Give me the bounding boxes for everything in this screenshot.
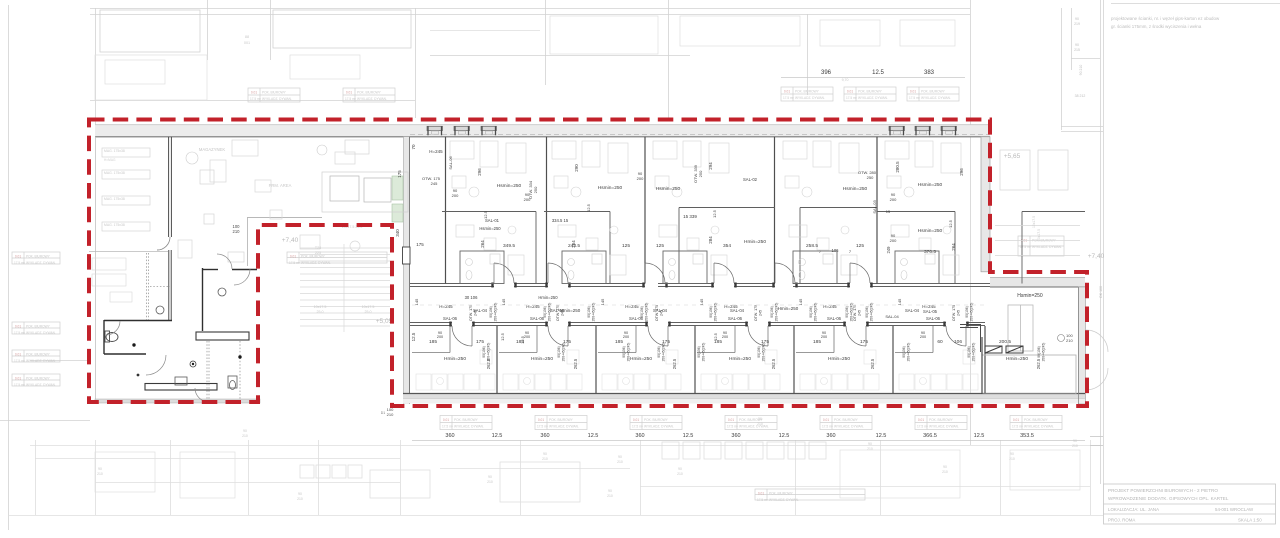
svg-text:WYKLADZ. DYWAN.: WYKLADZ. DYWAN. — [26, 383, 56, 387]
svg-text:OTW. 175: OTW. 175 — [754, 305, 758, 321]
svg-text:262.5: 262.5 — [870, 358, 875, 369]
svg-text:200: 200 — [890, 197, 897, 202]
svg-text:0.01: 0.01 — [910, 90, 916, 94]
svg-text:90(106): 90(106) — [770, 306, 774, 317]
top unit bathroom boxes — [460, 251, 939, 284]
dotted stud partitions — [147, 253, 241, 402]
bottom units partitions and kitchens — [412, 326, 450, 353]
svg-text:90: 90 — [1010, 452, 1014, 456]
svg-text:SAL-04: SAL-04 — [885, 314, 899, 319]
svg-text:0.01: 0.01 — [633, 418, 639, 422]
svg-text:185: 185 — [813, 339, 821, 345]
svg-text:0.01: 0.01 — [346, 91, 352, 95]
svg-text:POK. BIUROWY: POK. BIUROWY — [1024, 418, 1049, 422]
svg-text:0.01: 0.01 — [538, 418, 544, 422]
svg-text:262.5: 262.5 — [573, 358, 578, 369]
svg-text:175: 175 — [416, 242, 424, 247]
svg-text:OTW. 175: OTW. 175 — [655, 305, 659, 321]
svg-text:OTW. 175: OTW. 175 — [853, 305, 857, 321]
svg-text:245: 245 — [660, 310, 664, 316]
svg-text:Hsmin=250: Hsmin=250 — [656, 186, 681, 192]
svg-text:WYKLADZ. DYWAN.: WYKLADZ. DYWAN. — [795, 96, 825, 100]
svg-text:12.5: 12.5 — [876, 433, 887, 439]
right door arc — [1086, 330, 1108, 352]
faint interior top band — [95, 16, 955, 100]
svg-text:17.5 m²: 17.5 m² — [846, 96, 857, 100]
svg-text:175: 175 — [662, 339, 670, 345]
svg-text:264: 264 — [480, 240, 485, 248]
svg-text:396: 396 — [821, 70, 832, 76]
right section north wall — [990, 277, 1085, 287]
svg-text:145: 145 — [897, 298, 902, 305]
svg-text:MAG. 175x38: MAG. 175x38 — [104, 197, 125, 201]
svg-text:200+45(245): 200+45(245) — [702, 343, 706, 362]
svg-text:360: 360 — [826, 433, 835, 439]
svg-text:Hsmin=250: Hsmin=250 — [918, 228, 943, 234]
svg-text:0.01: 0.01 — [443, 418, 449, 422]
svg-text:90(106): 90(106) — [697, 346, 701, 357]
svg-text:17.5 m²: 17.5 m² — [442, 425, 453, 429]
svg-text:90(106): 90(106) — [845, 306, 849, 317]
svg-text:12.5: 12.5 — [948, 219, 953, 228]
left open area faint walls — [247, 217, 322, 266]
svg-text:200+45(245): 200+45(245) — [1042, 343, 1046, 362]
svg-text:360: 360 — [731, 433, 740, 439]
dimension row above plan — [781, 77, 965, 79]
svg-text:17.5 m²: 17.5 m² — [14, 383, 25, 387]
svg-text:H=245: H=245 — [429, 149, 443, 154]
svg-text:10x17.5: 10x17.5 — [314, 305, 327, 309]
door jambs bottom corridor — [451, 322, 968, 327]
toilet 2 and sink — [156, 288, 237, 390]
svg-text:245: 245 — [858, 310, 862, 316]
svg-text:90: 90 — [758, 417, 762, 421]
svg-text:Hsmin=250: Hsmin=250 — [918, 182, 943, 188]
beam strip 2 — [145, 384, 217, 391]
svg-text:10x17.5: 10x17.5 — [362, 305, 375, 309]
svg-text:145: 145 — [600, 298, 605, 305]
svg-text:gr. ścianki 175mm, z środki wy: gr. ścianki 175mm, z środki wyciszenia i… — [1111, 24, 1202, 29]
svg-text:POK. BIUROWY: POK. BIUROWY — [644, 418, 669, 422]
svg-text:SAL-03: SAL-03 — [872, 200, 877, 214]
right section faint interior — [995, 150, 1080, 256]
svg-text:245: 245 — [474, 310, 478, 316]
pipe lines — [960, 324, 981, 352]
svg-text:284: 284 — [708, 236, 713, 244]
svg-text:210: 210 — [297, 497, 303, 501]
svg-text:90(106): 90(106) — [902, 346, 906, 357]
svg-text:296: 296 — [959, 168, 964, 176]
svg-text:90(106): 90(106) — [587, 306, 591, 317]
svg-text:POK. BIUROWY: POK. BIUROWY — [929, 418, 954, 422]
svg-text:POK. BIUROWY: POK. BIUROWY — [921, 90, 946, 94]
svg-text:Hmin=250: Hmin=250 — [630, 356, 652, 362]
svg-text:210: 210 — [677, 472, 683, 476]
svg-text:262.5: 262.5 — [1036, 358, 1041, 369]
svg-text:0.01: 0.01 — [784, 90, 790, 94]
svg-text:334.5 15: 334.5 15 — [552, 218, 569, 223]
svg-text:90: 90 — [678, 467, 682, 471]
svg-text:210: 210 — [607, 494, 613, 498]
svg-text:Hsmin=250: Hsmin=250 — [1017, 293, 1043, 299]
svg-text:17.5 m²: 17.5 m² — [289, 261, 300, 265]
svg-text:0.01: 0.01 — [758, 492, 764, 496]
svg-text:17.5 m²: 17.5 m² — [917, 425, 928, 429]
svg-text:200: 200 — [821, 335, 827, 339]
svg-text:210: 210 — [542, 457, 548, 461]
svg-text:145: 145 — [414, 298, 419, 305]
svg-text:POK. BIUROWY: POK. BIUROWY — [26, 353, 51, 357]
red dashed boundary — [89, 120, 1087, 407]
svg-text:90(106): 90(106) — [757, 346, 761, 357]
svg-text:200: 200 — [637, 176, 644, 181]
svg-text:15 339: 15 339 — [683, 214, 697, 219]
svg-text:125: 125 — [622, 243, 630, 249]
svg-text:WYKLADZ. DYWAN.: WYKLADZ. DYWAN. — [644, 425, 674, 429]
svg-text:12.5: 12.5 — [411, 332, 416, 341]
svg-text:262.5: 262.5 — [486, 358, 491, 369]
svg-text:210: 210 — [1072, 444, 1078, 448]
svg-text:185: 185 — [429, 339, 437, 345]
svg-text:17.5 m²: 17.5 m² — [822, 425, 833, 429]
svg-text:17.5 m²: 17.5 m² — [909, 96, 920, 100]
right lower room — [982, 355, 1076, 394]
svg-text:Hmin=250: Hmin=250 — [729, 356, 751, 362]
svg-text:200+45(245): 200+45(245) — [850, 303, 854, 322]
svg-text:WYKLADZ. DYWAN.: WYKLADZ. DYWAN. — [262, 97, 292, 101]
svg-text:0.01: 0.01 — [15, 353, 21, 357]
svg-text:POK. BIUROWY: POK. BIUROWY — [26, 325, 51, 329]
svg-text:250: 250 — [867, 175, 874, 180]
svg-text:210: 210 — [242, 434, 248, 438]
svg-text:SKALA 1:50: SKALA 1:50 — [1238, 518, 1262, 523]
svg-text:25.0: 25.0 — [365, 310, 372, 314]
svg-text:225: 225 — [315, 251, 321, 255]
svg-text:WYKLADZ. DYWAN.: WYKLADZ. DYWAN. — [357, 97, 387, 101]
svg-text:17.5 m²: 17.5 m² — [345, 97, 356, 101]
svg-text:200+45(245): 200+45(245) — [548, 303, 552, 322]
left block tall wall — [169, 137, 172, 237]
svg-text:17.5 m²: 17.5 m² — [250, 97, 261, 101]
svg-text:258.5: 258.5 — [806, 243, 818, 249]
svg-text:90(106): 90(106) — [965, 306, 969, 317]
svg-text:SAL-06: SAL-06 — [443, 316, 458, 321]
room info boxes top — [248, 88, 300, 102]
svg-text:17.5 m²: 17.5 m² — [1012, 425, 1023, 429]
svg-text:245: 245 — [561, 310, 565, 316]
bottom wall left block — [95, 399, 260, 403]
toilet 1 — [105, 331, 118, 342]
svg-text:88: 88 — [245, 35, 249, 39]
wc walls — [104, 268, 257, 354]
svg-text:SAL-06: SAL-06 — [728, 316, 743, 321]
svg-text:90: 90 — [243, 429, 247, 433]
corridor doors top wall — [494, 263, 870, 283]
svg-text:12.5: 12.5 — [586, 203, 591, 212]
svg-text:12.5: 12.5 — [713, 332, 718, 341]
svg-text:70: 70 — [411, 144, 416, 150]
svg-text:90: 90 — [543, 452, 547, 456]
svg-text:200+45(245): 200+45(245) — [662, 343, 666, 362]
svg-text:90(106): 90(106) — [640, 306, 644, 317]
top units furniture — [450, 141, 526, 275]
svg-text:WYKLADZ. DYWAN.: WYKLADZ. DYWAN. — [454, 425, 484, 429]
svg-text:219: 219 — [1074, 22, 1080, 26]
svg-text:383: 383 — [924, 70, 935, 76]
svg-text:210: 210 — [487, 480, 493, 484]
svg-text:Hsmin=250: Hsmin=250 — [497, 183, 522, 189]
extra faint lower content — [95, 450, 1090, 498]
left wall door arc — [157, 237, 170, 250]
svg-text:90(106): 90(106) — [557, 346, 561, 357]
svg-text:90: 90 — [1075, 43, 1079, 47]
svg-text:0.01: 0.01 — [15, 255, 21, 259]
svg-text:Hmin=250: Hmin=250 — [744, 239, 766, 245]
svg-text:210: 210 — [233, 229, 241, 234]
svg-text:200: 200 — [437, 335, 443, 339]
svg-text:290: 290 — [574, 164, 579, 172]
svg-text:185: 185 — [615, 339, 623, 345]
svg-text:145: 145 — [501, 298, 506, 305]
svg-text:200: 200 — [623, 335, 629, 339]
svg-text:90(106): 90(106) — [1037, 346, 1041, 357]
svg-text:0.01: 0.01 — [1013, 418, 1019, 422]
svg-text:360: 360 — [635, 433, 644, 439]
svg-text:90(106): 90(106) — [709, 306, 713, 317]
beam strip 1 — [196, 332, 249, 340]
svg-text:125: 125 — [856, 243, 864, 249]
svg-text:280.5: 280.5 — [895, 161, 900, 173]
svg-text:POK. BIUROWY: POK. BIUROWY — [858, 90, 883, 94]
svg-text:WYKLADZ. DYWAN.: WYKLADZ. DYWAN. — [1024, 425, 1054, 429]
svg-text:17.5 m²: 17.5 m² — [632, 425, 643, 429]
svg-text:145: 145 — [699, 298, 704, 305]
svg-text:SAL-06: SAL-06 — [827, 316, 842, 321]
corridor north wall — [410, 284, 990, 287]
svg-text:200+45(245): 200+45(245) — [972, 343, 976, 362]
svg-text:215: 215 — [1074, 48, 1080, 52]
open area south line — [89, 251, 168, 253]
bathroom fixtures faint — [466, 254, 936, 280]
svg-text:SAL-05: SAL-05 — [923, 309, 938, 314]
svg-text:+7,40: +7,40 — [1088, 253, 1105, 260]
svg-text:90: 90 — [608, 489, 612, 493]
svg-text:Hsmin=250: Hsmin=250 — [479, 226, 501, 231]
svg-text:90: 90 — [1073, 439, 1077, 443]
svg-text:0.01: 0.01 — [918, 418, 924, 422]
svg-text:POK. BIUROWY: POK. BIUROWY — [357, 91, 382, 95]
svg-text:12.5: 12.5 — [492, 433, 503, 439]
svg-text:WYKLADZ. DYWAN.: WYKLADZ. DYWAN. — [301, 261, 331, 265]
svg-text:10x17.5: 10x17.5 — [1037, 229, 1041, 241]
svg-text:0.01: 0.01 — [15, 377, 21, 381]
west wall of main block — [404, 137, 410, 404]
svg-text:WYKLADZ. DYWAN.: WYKLADZ. DYWAN. — [1032, 245, 1062, 249]
bottom dimension row — [412, 440, 1085, 442]
svg-text:projektowane ścianki, nr. i wę: projektowane ścianki, nr. i węzeł gips-k… — [1111, 16, 1220, 21]
svg-text:210: 210 — [387, 412, 394, 417]
svg-text:210: 210 — [617, 460, 623, 464]
svg-text:POK. BIUROWY: POK. BIUROWY — [26, 255, 51, 259]
svg-text:12.5: 12.5 — [483, 210, 488, 219]
svg-text:WYKLADZ. DYWAN.: WYKLADZ. DYWAN. — [739, 425, 769, 429]
svg-text:POK. BIUROWY: POK. BIUROWY — [26, 377, 51, 381]
corridor floor midline — [412, 304, 985, 306]
svg-text:WYKLADZ. DYWAN.: WYKLADZ. DYWAN. — [929, 425, 959, 429]
plants green — [392, 176, 403, 222]
svg-text:17.5 m²: 17.5 m² — [757, 498, 768, 502]
svg-text:PROJEKT POWIERZCHNI BIUROWYCH: PROJEKT POWIERZCHNI BIUROWYCH - 2 PIETRO — [1108, 488, 1218, 493]
svg-text:17.5 m²: 17.5 m² — [727, 425, 738, 429]
svg-text:60: 60 — [937, 339, 943, 345]
svg-text:200+45(245): 200+45(245) — [714, 303, 718, 322]
svg-text:353.5: 353.5 — [1020, 433, 1034, 439]
svg-text:175: 175 — [476, 339, 484, 345]
open area furniture faint — [186, 140, 369, 262]
svg-text:+7,40: +7,40 — [282, 237, 299, 244]
svg-text:145: 145 — [798, 298, 803, 305]
svg-text:90: 90 — [488, 475, 492, 479]
svg-text:POK. BIUROWY: POK. BIUROWY — [301, 255, 326, 259]
svg-text:WYKLADZ. DYWAN.: WYKLADZ. DYWAN. — [858, 96, 888, 100]
east wall of top block — [981, 137, 990, 272]
svg-text:90: 90 — [618, 455, 622, 459]
svg-text:90: 90 — [943, 465, 947, 469]
svg-text:294: 294 — [708, 162, 713, 170]
svg-text:OTW. 175: OTW. 175 — [469, 305, 473, 321]
svg-text:90(106): 90(106) — [967, 346, 971, 357]
svg-text:WYKLADZ. DYWAN.: WYKLADZ. DYWAN. — [549, 425, 579, 429]
svg-text:POK. BIUROWY: POK. BIUROWY — [454, 418, 479, 422]
svg-text:340: 340 — [395, 229, 400, 237]
svg-text:SAL-02: SAL-02 — [743, 177, 758, 182]
svg-text:0.01: 0.01 — [15, 325, 21, 329]
svg-text:175: 175 — [563, 339, 571, 345]
svg-text:0.01: 0.01 — [728, 418, 734, 422]
svg-text:12.5: 12.5 — [872, 70, 884, 76]
svg-text:54-001 WROCLAW: 54-001 WROCLAW — [1215, 507, 1254, 512]
svg-text:200: 200 — [722, 335, 728, 339]
svg-text:38 212: 38 212 — [1075, 94, 1086, 98]
svg-text:WYKLADZ. DYWAN.: WYKLADZ. DYWAN. — [26, 359, 56, 363]
svg-text:0.01: 0.01 — [847, 90, 853, 94]
svg-text:12.5: 12.5 — [779, 433, 790, 439]
svg-text:200+45(245): 200+45(245) — [494, 303, 498, 322]
svg-text:17.5 m²: 17.5 m² — [14, 261, 25, 265]
svg-text:245: 245 — [759, 310, 763, 316]
shelving room — [102, 148, 150, 231]
svg-text:200+45(245): 200+45(245) — [562, 343, 566, 362]
svg-text:12.5: 12.5 — [683, 433, 694, 439]
svg-text:106: 106 — [954, 339, 962, 345]
svg-text:POK. BIUROWY: POK. BIUROWY — [769, 492, 794, 496]
svg-text:175: 175 — [860, 339, 868, 345]
svg-text:210: 210 — [1066, 338, 1073, 343]
svg-text:SAL-06: SAL-06 — [926, 316, 941, 321]
door arcs sanitary — [106, 237, 250, 402]
svg-text:360: 360 — [445, 433, 454, 439]
svg-text:250: 250 — [698, 170, 703, 177]
svg-text:200: 200 — [524, 335, 530, 339]
svg-text:Hmin=250: Hmin=250 — [1006, 356, 1028, 362]
svg-text:250: 250 — [533, 186, 538, 193]
bottom row unit walls — [497, 326, 985, 394]
svg-text:25.0: 25.0 — [317, 310, 324, 314]
svg-text:200: 200 — [890, 238, 897, 243]
room info boxes left margin — [12, 252, 60, 264]
svg-text:MAGAZYNEK: MAGAZYNEK — [199, 147, 225, 152]
svg-text:200+45(245): 200+45(245) — [487, 343, 491, 362]
svg-text:354: 354 — [723, 243, 731, 249]
right section east wall — [1079, 287, 1086, 404]
svg-text:90 210: 90 210 — [1079, 65, 1083, 76]
svg-text:OK 100: OK 100 — [1099, 286, 1103, 298]
svg-text:90(106): 90(106) — [482, 346, 486, 357]
svg-text:90(106): 90(106) — [622, 346, 626, 357]
svg-text:90(106): 90(106) — [657, 346, 661, 357]
svg-text:10x17.5: 10x17.5 — [1032, 216, 1036, 228]
svg-text:185: 185 — [516, 339, 524, 345]
svg-text:MAG. 175x38: MAG. 175x38 — [104, 149, 125, 153]
svg-text:SAL-06: SAL-06 — [448, 156, 453, 170]
svg-text:90(106): 90(106) — [865, 306, 869, 317]
svg-text:Hmin=250: Hmin=250 — [538, 295, 558, 300]
tall wall lower segment — [169, 250, 171, 320]
svg-text:200+45(245): 200+45(245) — [592, 303, 596, 322]
svg-text:245: 245 — [957, 310, 961, 316]
building bottom wall — [403, 394, 1085, 404]
svg-text:Hsmin=250: Hsmin=250 — [843, 186, 868, 192]
svg-text:+5,65: +5,65 — [1004, 153, 1021, 160]
svg-text:200+45(245): 200+45(245) — [970, 303, 974, 322]
svg-text:12.5: 12.5 — [712, 209, 717, 218]
svg-text:200+45(245): 200+45(245) — [775, 303, 779, 322]
svg-text:Hmin=250: Hmin=250 — [531, 356, 553, 362]
underlay lower floor — [8, 440, 1103, 516]
svg-text:POK. BIUROWY: POK. BIUROWY — [262, 91, 287, 95]
svg-text:125: 125 — [656, 243, 664, 249]
building top wall — [95, 125, 990, 137]
svg-text:175: 175 — [397, 170, 402, 178]
svg-text:210: 210 — [942, 470, 948, 474]
svg-text:200: 200 — [920, 335, 926, 339]
svg-text:210: 210 — [757, 422, 763, 426]
svg-text:175: 175 — [761, 339, 769, 345]
crossed vents — [985, 346, 1023, 353]
svg-text:WPROWADZENIE DODATK. GIPSOWYCH: WPROWADZENIE DODATK. GIPSOWYCH OPL. KART… — [1108, 496, 1229, 501]
svg-text:POK. BIUROWY: POK. BIUROWY — [549, 418, 574, 422]
svg-text:264: 264 — [951, 243, 956, 251]
corridor south wall — [410, 323, 985, 326]
upper room near notch — [322, 172, 408, 212]
windows on top wall — [427, 126, 443, 135]
svg-text:WYKLADZ. DYWAN.: WYKLADZ. DYWAN. — [769, 498, 799, 502]
svg-text:30 106: 30 106 — [465, 295, 478, 300]
svg-text:210: 210 — [867, 447, 873, 451]
svg-text:OTW. 175: OTW. 175 — [556, 305, 560, 321]
svg-text:Hmin=250: Hmin=250 — [778, 306, 799, 311]
svg-text:90: 90 — [868, 442, 872, 446]
svg-text:249: 249 — [886, 246, 891, 254]
svg-text:17.5 m²: 17.5 m² — [783, 96, 794, 100]
svg-text:349.5: 349.5 — [503, 243, 515, 249]
svg-text:200.5: 200.5 — [999, 339, 1011, 345]
svg-text:LOKALIZACJA: UL. JANA: LOKALIZACJA: UL. JANA — [1108, 507, 1159, 512]
left block west edge — [95, 137, 97, 404]
svg-text:262.5: 262.5 — [771, 358, 776, 369]
svg-text:12.5: 12.5 — [974, 433, 985, 439]
svg-text:243.5: 243.5 — [568, 243, 580, 249]
